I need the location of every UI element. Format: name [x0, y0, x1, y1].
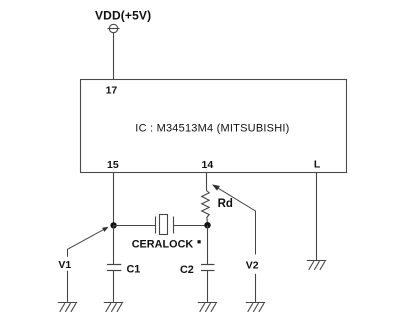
svg-text:VDD(+5V): VDD(+5V)	[95, 9, 151, 23]
junction node B	[204, 222, 210, 228]
footnote asterisk	[198, 240, 201, 243]
ground under C1	[104, 303, 123, 312]
wire pin L to ground	[316, 172, 318, 260]
wire node B to C2	[207, 225, 209, 264]
junction node A	[110, 222, 116, 228]
ground under V2	[246, 303, 265, 312]
wire pin 14 to resistor	[206, 172, 208, 191]
power terminal VDD	[108, 24, 120, 32]
ground under L	[307, 261, 326, 270]
svg-text:Rd: Rd	[218, 198, 233, 210]
svg-text:15: 15	[107, 159, 119, 171]
ceramic resonator X1 CERALOCK	[156, 215, 174, 235]
IC U1 box	[81, 80, 347, 173]
wire V1 to ground	[67, 271, 69, 302]
ground under C2	[198, 303, 217, 312]
wire node A to C1	[113, 225, 115, 264]
svg-text:IC : M34513M4 (MITSUBISHI): IC : M34513M4 (MITSUBISHI)	[135, 123, 289, 135]
svg-text:17: 17	[106, 85, 118, 97]
svg-text:CERALOCK: CERALOCK	[132, 238, 194, 250]
wire VDD to pin 17	[113, 33, 115, 80]
svg-text:14: 14	[202, 159, 214, 171]
wire pin 15 to node A	[113, 172, 115, 225]
wire C1 to ground	[113, 271, 115, 302]
svg-text:V2: V2	[246, 259, 259, 271]
wire resonator to node B	[174, 225, 208, 227]
wire node A to resonator	[114, 225, 156, 227]
wire C2 to ground	[207, 271, 209, 302]
capacitor C2	[201, 265, 215, 271]
svg-text:C2: C2	[180, 264, 194, 276]
probe arrow V2	[214, 186, 255, 255]
svg-text:L: L	[314, 159, 321, 171]
resistor Rd	[202, 191, 210, 223]
svg-text:C1: C1	[127, 264, 141, 276]
wire V2 to ground	[255, 274, 257, 302]
ground under V1	[58, 303, 77, 312]
capacitor C1	[107, 265, 121, 271]
svg-text:V1: V1	[58, 259, 71, 271]
probe arrow V1	[68, 228, 106, 256]
